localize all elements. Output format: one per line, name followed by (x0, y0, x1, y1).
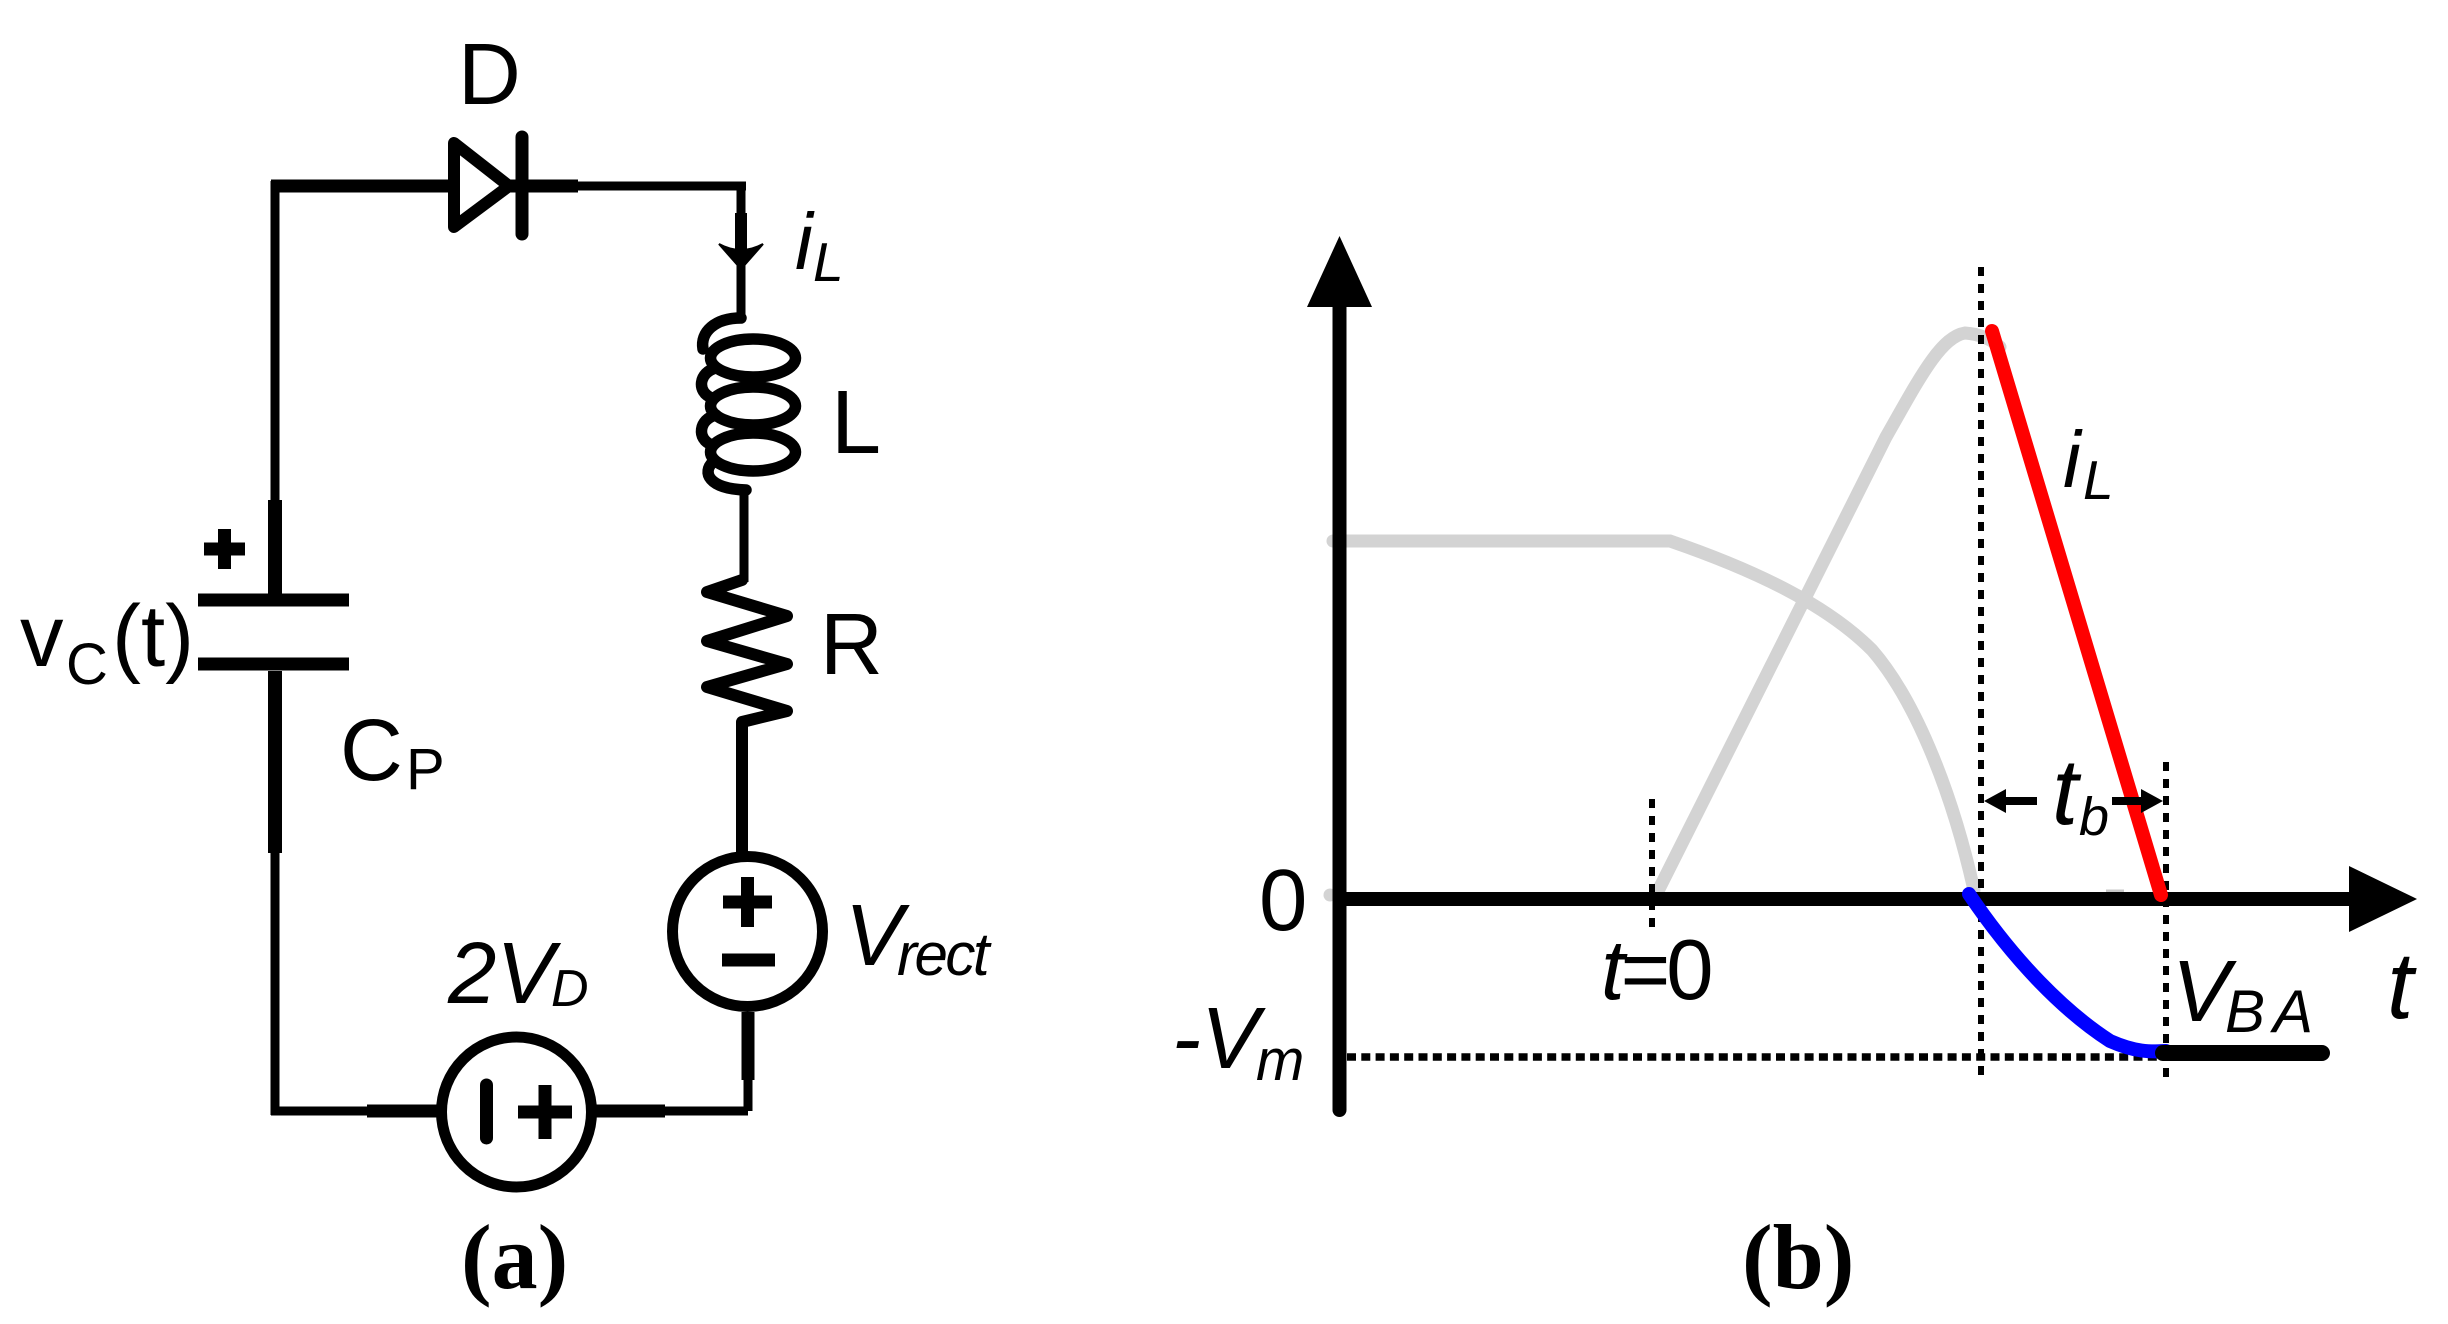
2VD plus (518, 1085, 572, 1139)
gray curve flat decay vC (1333, 541, 1974, 890)
wire bottom thick right stub of 2VD (592, 1105, 665, 1118)
gray nub at origin (1324, 889, 1337, 902)
red iL discharge line (1992, 331, 2161, 895)
wire right bottom vertical (744, 1012, 753, 1111)
y axis (1333, 300, 1347, 1110)
capacitor plus polarity (204, 529, 245, 569)
tb right arrow (2112, 797, 2143, 805)
svg-text:t: t (2387, 933, 2417, 1039)
diode D triangle (454, 143, 509, 227)
svg-text:rect: rect (897, 921, 992, 988)
svg-text:L: L (2083, 449, 2114, 511)
wire Vrect bottom terminal (742, 1012, 755, 1080)
svg-text:m: m (1256, 1028, 1304, 1093)
svg-text:-V: -V (1172, 990, 1266, 1087)
wire bottom thick left stub of 2VD (367, 1105, 441, 1118)
2VD bar (480, 1085, 493, 1138)
svg-text:i: i (2063, 415, 2083, 504)
svg-text:D: D (551, 960, 589, 1018)
wire left vertical capacitor top terminal (268, 500, 282, 594)
blue vC negative curve (1969, 894, 2166, 1051)
capacitor CP top plate (198, 594, 349, 607)
svg-text:(b): (b) (1742, 1206, 1854, 1308)
svg-text:C: C (340, 702, 403, 799)
black VBA level segment (2163, 1045, 2322, 1061)
svg-text:D: D (458, 26, 521, 123)
svg-text:(a): (a) (461, 1206, 568, 1308)
svg-text:i: i (795, 197, 815, 286)
wire capacitor bottom terminal (268, 671, 282, 853)
svg-text:t=0: t=0 (1601, 923, 1710, 1018)
wire between coil and resistor (740, 488, 749, 582)
gray curve sine hump iL (1657, 333, 2000, 893)
svg-text:R: R (820, 596, 883, 693)
source Vrect circle (673, 857, 823, 1007)
svg-text:t: t (2052, 739, 2082, 844)
y axis arrowhead (1307, 236, 1372, 307)
inductor L coil (701, 318, 795, 490)
wire left vertical upper (271, 181, 280, 594)
tb left arrow (1998, 797, 2037, 805)
wire resistor to Vrect (736, 722, 748, 858)
svg-text:0: 0 (1259, 852, 1307, 949)
wire top horizontal (271, 180, 578, 193)
svg-text:(t): (t) (112, 588, 194, 685)
wire top thin right of diode (576, 182, 746, 191)
dashed vertical line 1 (1978, 267, 1984, 1083)
diode D cathode bar (516, 137, 529, 234)
x axis (1333, 892, 2352, 906)
dashed horizontal -Vm line (1347, 1053, 2166, 1061)
svg-text:L: L (831, 373, 881, 473)
wire bottom horizontal (271, 1107, 748, 1116)
Vrect minus (722, 954, 775, 967)
gray nub near axis (2106, 890, 2124, 893)
svg-text:b: b (2079, 787, 2109, 847)
wire right vertical upper (737, 186, 746, 322)
svg-text:v: v (20, 588, 64, 685)
x axis arrowhead (2349, 866, 2417, 932)
current arrow iL (735, 213, 747, 250)
source 2VD circle (442, 1037, 592, 1187)
dashed line t=0 (1649, 799, 1655, 930)
resistor R zigzag (707, 580, 787, 722)
svg-text:P: P (406, 737, 445, 802)
svg-text:BA: BA (2225, 978, 2321, 1045)
wire left vertical lower (271, 671, 280, 1115)
dashed vertical line 2 (2163, 762, 2169, 1083)
svg-text:C: C (66, 632, 108, 697)
svg-text:2V: 2V (447, 925, 561, 1022)
svg-text:L: L (813, 231, 844, 293)
Vrect plus (723, 877, 772, 927)
capacitor CP bottom plate (198, 658, 349, 671)
